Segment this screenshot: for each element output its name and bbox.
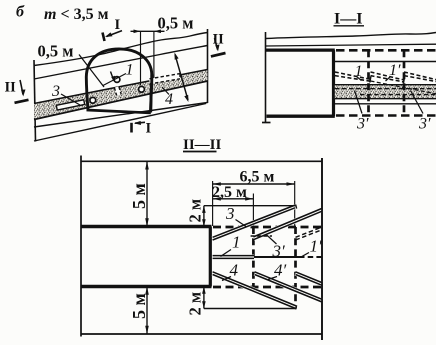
- borehole 3 (plan, double line): [213, 206, 296, 238]
- seam floor line: [34, 81, 208, 120]
- svg-text:I: I: [146, 121, 152, 137]
- surface wavy line: [266, 33, 436, 39]
- face position 2 projection (thick dashed vertical): [252, 227, 255, 287]
- drift floor: [87, 110, 151, 113]
- svg-text:1: 1: [232, 233, 241, 252]
- face position 3 (thick dashed vertical): [403, 50, 406, 115]
- 0,5 м dimension extension line (left): [140, 31, 142, 85]
- coal seam band (stippled): [34, 70, 208, 120]
- drift right wall re-stroke over tube: [151, 75, 152, 113]
- dimension 2 м (bottom): line and arrows: [203, 287, 205, 309]
- svg-text:б: б: [16, 3, 25, 20]
- seam dashed hole line a: [335, 88, 436, 90]
- short dashed collar line at face 2: [251, 235, 272, 237]
- svg-text:3′: 3′: [356, 116, 369, 133]
- dimension 2 м (top): line and arrows: [203, 206, 205, 227]
- dimension 2,5 м: line and arrows: [213, 198, 254, 200]
- borehole 1 continuation (dashed): [371, 81, 436, 94]
- leader from 1 to borehole: [103, 74, 126, 86]
- dimension 5 м (bottom): line and arrows: [146, 287, 148, 335]
- left border line of section: [34, 60, 36, 142]
- svg-text:0,5 м: 0,5 м: [38, 42, 74, 61]
- leader from 4 to borehole: [162, 87, 169, 95]
- right border line of section: [207, 29, 209, 103]
- extension line at 6,5 м: [294, 181, 296, 227]
- borehole 1 (cross-measure hole): seal circle: [114, 77, 120, 83]
- 0,5 м dimension extension line (right): [153, 31, 155, 80]
- plan frame bottom border: [81, 333, 322, 335]
- borehole 1'' wedge (dashed): [404, 72, 436, 82]
- plan frame top border: [81, 160, 322, 162]
- svg-text:4: 4: [165, 91, 173, 108]
- leader 3' (right): [411, 91, 424, 114]
- lowest stratum line: [34, 104, 206, 142]
- borehole 1 end tick: [370, 77, 371, 83]
- title underline: [183, 151, 217, 153]
- roadway rectangle: right wall: [332, 50, 335, 116]
- borehole 4'' (plan, double line): [296, 273, 323, 284]
- svg-text:II—II: II—II: [183, 137, 222, 153]
- drift outline: arch roof and walls: [86, 49, 152, 113]
- svg-text:2 м: 2 м: [186, 292, 205, 316]
- drift roof projection (thick dashed): [213, 226, 322, 229]
- leader 1 (plan): [221, 250, 232, 257]
- floor line continuation (thick dashed): [336, 114, 436, 117]
- 0,5 м top dimension line with arrows: [131, 30, 165, 32]
- drift floor projection (thick dashed): [213, 286, 322, 289]
- section mark I (bottom): bar, arrow, letter: [130, 123, 133, 133]
- plan frame right border: [321, 158, 323, 340]
- leader 1' (plan): [301, 253, 309, 258]
- borehole 1 tail (dashed tube below circle): [117, 87, 119, 95]
- leader 3' (left): [355, 91, 363, 114]
- svg-text:2 м: 2 м: [186, 199, 205, 223]
- seam dashed hole line b: [360, 94, 436, 96]
- borehole 3 end tick: [296, 205, 297, 209]
- svg-text:3: 3: [51, 83, 60, 100]
- seam floor line: [335, 98, 436, 100]
- borehole 4' (plan, double line): [255, 273, 322, 301]
- seam band in section (stippled): [335, 85, 436, 99]
- leader 1': [386, 77, 391, 82]
- svg-text:5 м: 5 м: [129, 293, 149, 319]
- svg-text:II: II: [5, 80, 17, 96]
- double-headed arrow across strata (normal distance): [175, 55, 188, 101]
- svg-text:I: I: [115, 17, 121, 33]
- leader 1: [357, 77, 362, 81]
- leader 3' (plan): [267, 235, 277, 244]
- borehole 4 dashed tube: [150, 76, 181, 81]
- svg-text:m < 3,5 м: m < 3,5 м: [44, 6, 109, 23]
- lower protected-zone line: [335, 103, 436, 105]
- borehole 1 axis dashed continuation: [299, 256, 322, 258]
- roadway rectangle: floor: [267, 115, 335, 118]
- borehole 4 end tick: [296, 305, 297, 309]
- drift face (thick): [209, 227, 212, 287]
- borehole 3 (sealed hole left of drift): tube: [56, 100, 84, 110]
- borehole 3 seal circle: [90, 97, 96, 103]
- borehole 4 (hole right of drift): seal circle: [139, 86, 145, 92]
- borehole 4 (plan, double line): [213, 273, 296, 307]
- seam roof line: [34, 70, 208, 104]
- extension line for 6,5/2,5 (at face): [212, 181, 214, 226]
- plan frame right border (over tubes): [321, 158, 323, 340]
- svg-text:1: 1: [126, 62, 134, 79]
- leader 4 (plan): [222, 277, 231, 281]
- svg-text:3′: 3′: [272, 242, 286, 261]
- svg-text:5 м: 5 м: [129, 183, 149, 209]
- lower 2 м reference line: [204, 308, 297, 310]
- small arrow at borehole 1 mouth: [111, 72, 114, 81]
- roof line continuation (thick dashed): [336, 49, 436, 52]
- upper 2 м reference line: [204, 205, 295, 207]
- dimension 5 м (top): line and arrows: [146, 161, 148, 226]
- borehole 3' (plan, double line): [253, 210, 322, 239]
- borehole 1 wedge (dashed): [335, 72, 371, 81]
- face position 3 projection (thick dashed vertical): [294, 227, 297, 309]
- lower stratum line: [34, 103, 208, 128]
- drift roof edge (plan, thick): [81, 225, 212, 228]
- roadway rectangle: top: [266, 48, 335, 51]
- borehole 1 axis continuation: [254, 256, 299, 258]
- svg-text:1′: 1′: [310, 237, 323, 256]
- svg-text:2,5 м: 2,5 м: [212, 184, 247, 201]
- svg-text:6,5 м: 6,5 м: [240, 169, 275, 186]
- svg-text:0,5 м: 0,5 м: [158, 14, 194, 33]
- title underline: [334, 25, 365, 27]
- drift floor edge (plan, thick): [81, 285, 212, 288]
- dimension 6,5 м: line and arrows: [213, 183, 295, 185]
- upper stratum line (I-I): [266, 44, 436, 46]
- leader 4' (plan): [268, 277, 277, 280]
- upper stratum line: [34, 46, 208, 80]
- svg-text:I—I: I—I: [334, 11, 362, 28]
- upper protected-zone line: [335, 61, 436, 63]
- svg-text:3: 3: [225, 204, 235, 223]
- borehole 1 (plan, double line): [213, 255, 254, 260]
- svg-text:3′: 3′: [418, 116, 431, 133]
- leader 3 (plan): [236, 220, 247, 227]
- borehole 3'' (plan, dashed double): [296, 227, 323, 240]
- borehole 1' end tick: [403, 77, 404, 83]
- face position 2 (thick dashed vertical): [367, 50, 370, 115]
- seam roof line: [335, 84, 436, 86]
- borehole 1' wedge (dashed): [371, 72, 405, 82]
- left border foot tick: [262, 122, 271, 124]
- left border line: [265, 32, 267, 123]
- extension line at 2,5 м: [252, 194, 254, 228]
- leader from 0,5 м to drift wall: [79, 55, 104, 88]
- surface wavy stratum line: [34, 33, 208, 66]
- leader from 3 to borehole: [61, 94, 80, 105]
- svg-text:1′: 1′: [389, 62, 401, 79]
- plan frame left border: [80, 156, 82, 337]
